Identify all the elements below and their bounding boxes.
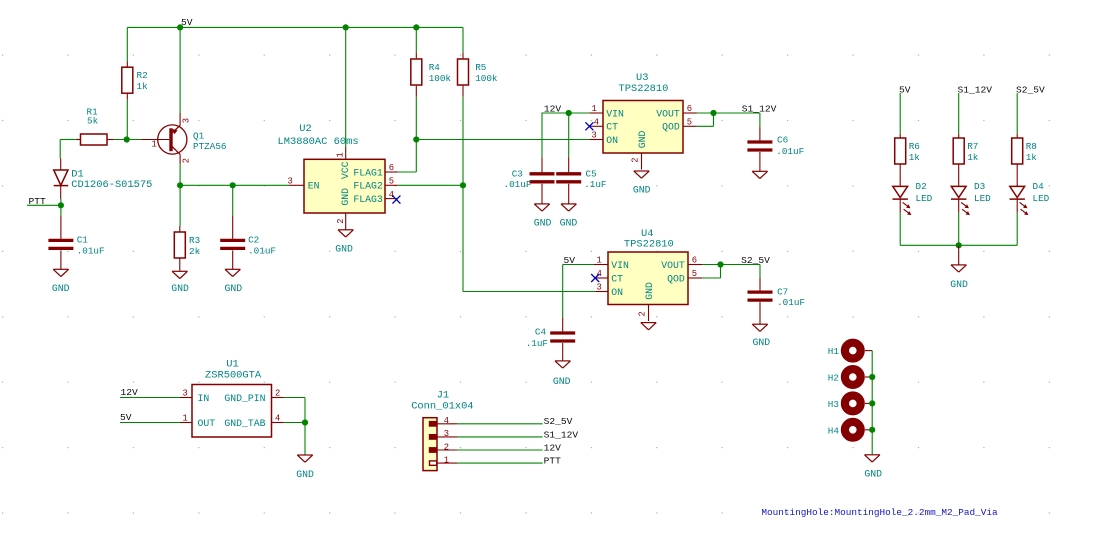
regulator U1 ZSR500GTA xyxy=(192,358,272,437)
U2 pin 2 GND xyxy=(336,188,351,230)
svg-text:GND: GND xyxy=(534,218,552,229)
svg-text:2: 2 xyxy=(637,311,647,316)
wire J1 pin 1 to PTT xyxy=(457,462,543,464)
svg-text:GND: GND xyxy=(633,184,651,195)
wire R1 to Q1 base xyxy=(114,139,142,141)
wire 12V down to C3 xyxy=(541,113,543,157)
junction collector/R3 node xyxy=(177,182,183,188)
U4 pin 1 VIN xyxy=(594,256,629,271)
svg-text:5V: 5V xyxy=(564,255,576,266)
svg-text:.1uF: .1uF xyxy=(584,179,606,190)
U4 pin 3 ON xyxy=(596,283,624,298)
svg-text:3: 3 xyxy=(597,283,602,293)
U2 pin 3 EN xyxy=(288,176,320,191)
ground below U2 xyxy=(335,230,353,255)
op-amp U3 TPS22810 xyxy=(603,72,683,153)
diode D1 xyxy=(54,159,153,200)
svg-text:R8: R8 xyxy=(1026,141,1037,152)
label S1_12V at LED column xyxy=(958,84,993,95)
svg-text:FLAG1: FLAG1 xyxy=(353,167,383,178)
U2 pin 5 FLAG2 xyxy=(353,177,398,192)
svg-text:2k: 2k xyxy=(189,246,201,257)
svg-text:.01uF: .01uF xyxy=(776,146,804,157)
svg-text:U1: U1 xyxy=(226,358,238,370)
svg-text:R2: R2 xyxy=(137,70,148,81)
wire PTT node to C1 xyxy=(60,205,62,216)
junction R4 / ON net / FLAG1 xyxy=(413,136,419,142)
svg-text:S2_5V: S2_5V xyxy=(544,416,573,427)
mounting hole H2 xyxy=(828,369,861,385)
resistor R5 xyxy=(458,53,498,97)
mounting hole H3 xyxy=(828,396,861,412)
svg-text:S1_12V: S1_12V xyxy=(958,84,993,95)
svg-text:5: 5 xyxy=(389,177,394,187)
svg-text:C1: C1 xyxy=(77,235,89,246)
wire ON net to U3 xyxy=(416,139,589,141)
H3 pin stub xyxy=(865,402,872,404)
svg-text:Conn_01x04: Conn_01x04 xyxy=(411,401,473,413)
wire J1 pin 2 to 12V xyxy=(457,449,543,451)
svg-text:U2: U2 xyxy=(299,123,311,135)
svg-text:D2: D2 xyxy=(916,181,927,192)
svg-text:MountingHole:MountingHole_2.2m: MountingHole:MountingHole_2.2mm_M2_Pad_V… xyxy=(761,507,998,518)
H4 pin stub xyxy=(865,429,872,431)
resistor R1 xyxy=(76,107,114,146)
mounting hole H4 xyxy=(828,422,861,438)
U1 pin 3 IN xyxy=(180,389,209,405)
svg-text:3: 3 xyxy=(182,118,192,123)
label S2_5V xyxy=(741,255,770,266)
wire U4 QOD up xyxy=(720,265,722,279)
label 5V at LED column xyxy=(899,84,911,95)
resistor R6 xyxy=(895,134,921,171)
svg-text:GND: GND xyxy=(864,469,882,480)
svg-text:2: 2 xyxy=(630,158,640,163)
svg-text:100k: 100k xyxy=(475,73,498,84)
svg-text:C5: C5 xyxy=(586,168,597,179)
wire D1 to PTT node xyxy=(60,199,62,205)
svg-text:ON: ON xyxy=(611,287,623,298)
wire FLAG1 drop xyxy=(415,140,417,173)
wire 5V to U2 VCC xyxy=(345,27,347,147)
H1 pin stub xyxy=(865,350,872,352)
wire FLAG2 node down xyxy=(462,185,464,291)
svg-text:5: 5 xyxy=(687,117,692,127)
U3 pin 4 CT xyxy=(589,118,618,133)
wire VOUT to S1_12V xyxy=(697,112,760,114)
svg-text:1: 1 xyxy=(183,414,188,424)
junction U1 ground tie xyxy=(302,419,308,425)
U2 pin 4 FLAG3 xyxy=(353,190,398,205)
wire GND_TAB right xyxy=(284,422,306,424)
label S1_12V at J1 xyxy=(544,429,579,440)
junction R5 / FLAG2 xyxy=(460,182,466,188)
wire J1 pin 3 to S1_12V xyxy=(457,436,543,438)
junction U4 QOD tie xyxy=(717,261,723,267)
svg-text:1: 1 xyxy=(592,104,597,114)
svg-text:GND: GND xyxy=(637,130,648,148)
junction H4 tap xyxy=(869,427,875,433)
capacitor C2 xyxy=(220,216,276,269)
ground below C5 xyxy=(560,204,578,229)
label 5V at U4 xyxy=(564,255,576,266)
svg-text:GND: GND xyxy=(296,469,314,480)
wire J1 pin 4 to S2_5V xyxy=(457,423,543,425)
wire D4 to ground bus xyxy=(1016,213,1018,246)
svg-text:1k: 1k xyxy=(137,81,149,92)
svg-text:OUT: OUT xyxy=(198,418,216,429)
U2 pin 6 FLAG1 xyxy=(353,163,398,178)
wire 5V down to R6 xyxy=(899,93,901,134)
svg-text:GND: GND xyxy=(560,218,578,229)
svg-text:C6: C6 xyxy=(777,134,788,145)
svg-text:LM3880AC 60ms: LM3880AC 60ms xyxy=(278,136,359,148)
svg-text:3: 3 xyxy=(444,429,449,439)
svg-text:Q1: Q1 xyxy=(193,130,205,141)
svg-text:6: 6 xyxy=(692,256,697,266)
svg-text:.01uF: .01uF xyxy=(248,245,276,256)
svg-text:J1: J1 xyxy=(437,389,449,401)
wire junction down to C5 xyxy=(568,113,570,157)
wire R1 left lead xyxy=(60,139,76,141)
svg-text:IN: IN xyxy=(198,393,210,404)
LED D2 xyxy=(893,171,933,215)
wire LED ground bus xyxy=(900,244,1017,246)
wire D2 to ground bus xyxy=(899,213,901,246)
svg-text:2: 2 xyxy=(182,158,192,163)
wire 5V rail to R2 xyxy=(126,27,128,61)
svg-text:100k: 100k xyxy=(429,73,452,84)
svg-text:12V: 12V xyxy=(544,103,562,114)
svg-text:TPS22810: TPS22810 xyxy=(624,238,674,250)
svg-text:GND: GND xyxy=(950,279,968,290)
junction H2 tap xyxy=(869,374,875,380)
wire R5 to FLAG2 node xyxy=(462,97,464,186)
resistor R7 xyxy=(953,134,979,171)
capacitor C7 xyxy=(748,278,806,324)
svg-text:R7: R7 xyxy=(967,141,978,152)
svg-text:FLAG2: FLAG2 xyxy=(353,181,383,192)
J1 pin 4 xyxy=(430,416,458,426)
svg-text:5k: 5k xyxy=(87,116,99,127)
capacitor C3 xyxy=(504,157,555,204)
svg-text:6: 6 xyxy=(389,163,394,173)
J1 pin 2 xyxy=(430,442,458,452)
svg-text:S1_12V: S1_12V xyxy=(742,103,777,114)
ground below holes xyxy=(864,455,882,480)
svg-text:C7: C7 xyxy=(777,286,788,297)
ground below C2 xyxy=(225,269,243,294)
svg-text:D3: D3 xyxy=(974,181,985,192)
svg-text:PTT: PTT xyxy=(544,456,562,467)
svg-text:LED: LED xyxy=(916,193,933,204)
svg-text:2: 2 xyxy=(336,219,346,224)
svg-text:GND_TAB: GND_TAB xyxy=(224,418,265,429)
wire corner down to D1 xyxy=(59,140,61,159)
svg-text:GND: GND xyxy=(171,283,189,294)
svg-text:1: 1 xyxy=(597,256,602,266)
svg-text:R4: R4 xyxy=(429,62,441,73)
ground below U1 xyxy=(296,455,314,480)
label PTT xyxy=(29,196,47,207)
label 5V at U1 xyxy=(120,412,132,423)
svg-text:3: 3 xyxy=(592,131,597,141)
junction base node xyxy=(124,136,130,142)
U1 pin 2 GND_PIN xyxy=(224,389,283,405)
capacitor C1 xyxy=(48,216,104,269)
svg-text:3: 3 xyxy=(288,176,293,186)
svg-text:S1_12V: S1_12V xyxy=(544,429,579,440)
svg-text:GND: GND xyxy=(225,283,243,294)
wire QOD up xyxy=(713,113,715,126)
wire EN net xyxy=(180,184,289,186)
junction 5V rail / R4 xyxy=(413,24,419,30)
junction 5V rail / Q1 emitter xyxy=(177,24,183,30)
svg-text:VIN: VIN xyxy=(611,260,629,271)
U1 pin 1 OUT xyxy=(180,414,215,430)
wire R2 to base junction xyxy=(126,99,128,140)
wire FLAG1 horizontal xyxy=(398,171,416,173)
ground below C4 xyxy=(553,361,571,387)
capacitor C4 xyxy=(526,318,576,361)
svg-text:5V: 5V xyxy=(120,412,132,423)
connector J1 Conn_01x04 xyxy=(411,389,473,470)
wire GND_PIN right xyxy=(284,397,306,399)
resistor R3 xyxy=(174,226,200,271)
wire node to C2 xyxy=(232,185,234,216)
junction LED bus center xyxy=(956,242,962,248)
label 5V xyxy=(181,17,193,28)
U4 pin 4 CT xyxy=(594,269,623,284)
junction C5 tap on 12V xyxy=(566,110,572,116)
svg-text:.01uF: .01uF xyxy=(77,245,105,256)
wire 5V into U1 xyxy=(120,422,180,424)
U3 pin 1 VIN xyxy=(589,104,624,119)
ground below LED bus xyxy=(950,265,968,290)
svg-text:S2_5V: S2_5V xyxy=(1016,84,1045,95)
svg-text:1: 1 xyxy=(335,152,345,157)
svg-text:6: 6 xyxy=(687,104,692,114)
svg-text:R5: R5 xyxy=(475,62,486,73)
ground below C3 xyxy=(534,204,552,229)
svg-text:GND_PIN: GND_PIN xyxy=(224,393,265,404)
svg-text:GND: GND xyxy=(753,337,771,348)
wire VOUT to S2_5V xyxy=(702,264,760,266)
svg-text:QOD: QOD xyxy=(667,273,685,284)
resistor R2 xyxy=(122,62,148,100)
junction QOD tie xyxy=(710,110,716,116)
svg-text:CT: CT xyxy=(611,273,623,284)
svg-text:S2_5V: S2_5V xyxy=(741,255,770,266)
wire S1_12V down to R7 xyxy=(958,93,960,134)
capacitor C6 xyxy=(747,127,804,171)
wire S2_5V down to R8 xyxy=(1016,93,1018,134)
svg-text:ZSR500GTA: ZSR500GTA xyxy=(205,370,262,382)
svg-text:D4: D4 xyxy=(1033,181,1045,192)
svg-text:1: 1 xyxy=(444,455,449,465)
resistor R4 xyxy=(411,53,452,97)
svg-text:LED: LED xyxy=(974,193,991,204)
H2 pin stub xyxy=(865,376,872,378)
J1 pin 1 xyxy=(430,455,458,465)
wire S1_12V down to C6 xyxy=(759,113,761,127)
svg-text:GND: GND xyxy=(335,243,353,254)
svg-text:4: 4 xyxy=(275,414,280,424)
ground below C6 xyxy=(752,171,767,178)
wire FLAG2 horizontal xyxy=(398,184,463,186)
svg-text:VCC: VCC xyxy=(340,161,351,179)
svg-text:TPS22810: TPS22810 xyxy=(619,83,669,95)
svg-text:EN: EN xyxy=(308,181,320,192)
svg-text:LED: LED xyxy=(1033,193,1050,204)
label S2_5V at LED column xyxy=(1016,84,1045,95)
ground below C1 xyxy=(52,269,70,294)
ground below C7 xyxy=(752,324,770,348)
svg-text:C4: C4 xyxy=(535,327,547,338)
svg-text:.01uF: .01uF xyxy=(504,179,532,190)
transistor Q1 xyxy=(141,113,226,164)
LED D3 xyxy=(951,171,991,215)
U3 pin 6 VOUT xyxy=(656,104,697,119)
ground below U3 xyxy=(633,171,651,195)
wire node to R3 xyxy=(179,185,181,226)
svg-text:2: 2 xyxy=(444,442,449,452)
wire R4 to ON net xyxy=(415,97,417,140)
svg-text:VOUT: VOUT xyxy=(656,108,680,119)
capacitor C5 xyxy=(556,157,606,204)
U3 pin 3 ON xyxy=(589,131,618,146)
svg-text:5V: 5V xyxy=(899,84,911,95)
junction PTT node xyxy=(58,202,64,208)
svg-text:ON: ON xyxy=(606,135,618,146)
LED bus ground lead xyxy=(958,245,960,265)
svg-text:12V: 12V xyxy=(121,387,139,398)
junction C2 tap xyxy=(230,182,236,188)
svg-text:5: 5 xyxy=(692,269,697,279)
svg-text:4: 4 xyxy=(389,190,394,200)
wire 5V down to C4 xyxy=(562,265,564,319)
label 12V xyxy=(544,103,562,114)
svg-text:GND: GND xyxy=(644,282,655,300)
wire Q1 emitter to 5V xyxy=(179,27,181,113)
svg-text:H2: H2 xyxy=(828,373,839,384)
svg-text:VIN: VIN xyxy=(606,108,624,119)
svg-text:C2: C2 xyxy=(248,235,259,246)
svg-text:CT: CT xyxy=(606,122,618,133)
wire H1 corner down xyxy=(871,351,873,455)
op-amp U4 TPS22810 xyxy=(608,228,688,304)
ground below U4 xyxy=(641,323,656,330)
svg-text:.1uF: .1uF xyxy=(526,338,548,349)
footprint text MountingHole xyxy=(761,507,998,518)
mounting hole H1 xyxy=(828,343,861,359)
label PTT at J1 xyxy=(544,456,562,467)
svg-text:H3: H3 xyxy=(828,399,839,410)
svg-text:H1: H1 xyxy=(828,346,840,357)
wire 5V to U4 VIN xyxy=(563,264,594,266)
svg-text:12V: 12V xyxy=(544,442,562,453)
label S2_5V at J1 xyxy=(544,416,573,427)
wire Q1 collector down xyxy=(179,164,181,186)
label S1_12V xyxy=(742,103,777,114)
U2 pin 1 VCC xyxy=(335,147,351,179)
svg-text:1k: 1k xyxy=(967,152,979,163)
U4 pin 5 QOD xyxy=(667,269,702,284)
svg-text:GND: GND xyxy=(553,376,571,387)
svg-text:CD1206-S01575: CD1206-S01575 xyxy=(71,179,152,191)
svg-text:QOD: QOD xyxy=(662,122,680,133)
wire PTT xyxy=(27,204,61,206)
LED D4 xyxy=(1010,171,1050,215)
wire U1 ground down xyxy=(304,423,306,456)
svg-text:1: 1 xyxy=(152,140,157,150)
wire 12V into U1 xyxy=(120,397,180,399)
svg-text:4: 4 xyxy=(444,416,449,426)
no-connect U3 pin 4 xyxy=(585,122,593,130)
svg-text:4: 4 xyxy=(594,118,599,128)
no-connect U4 pin 4 xyxy=(591,274,599,282)
wire D3 to ground bus xyxy=(958,213,960,246)
svg-text:R3: R3 xyxy=(189,235,200,246)
svg-text:H4: H4 xyxy=(828,425,840,436)
svg-text:GND: GND xyxy=(52,283,70,294)
svg-text:C3: C3 xyxy=(512,168,523,179)
svg-text:3: 3 xyxy=(183,389,188,399)
U1 pin 4 GND_TAB xyxy=(224,414,283,430)
wire 5V rail xyxy=(127,26,463,28)
label 12V at J1 xyxy=(544,442,562,453)
ground below R3 xyxy=(171,271,189,294)
wire 5V to R4 xyxy=(415,27,417,53)
U4 pin 6 VOUT xyxy=(661,256,702,271)
U3 pin 2 GND xyxy=(630,130,648,169)
svg-text:GND: GND xyxy=(340,188,351,206)
svg-text:1k: 1k xyxy=(1026,152,1038,163)
svg-text:PTZA56: PTZA56 xyxy=(193,141,226,152)
U3 pin 5 QOD xyxy=(662,117,697,132)
svg-text:1k: 1k xyxy=(909,152,921,163)
wire 5V rail corner to R5 xyxy=(462,27,464,53)
svg-text:2: 2 xyxy=(275,389,280,399)
op-amp U2 LM3880 xyxy=(278,123,386,213)
no-connect U2 pin 4 xyxy=(392,196,400,204)
junction 5V rail / U2 VCC xyxy=(343,24,349,30)
resistor R8 xyxy=(1012,134,1038,171)
wire QOD horizontal xyxy=(697,125,714,127)
junction H3 tap xyxy=(869,400,875,406)
U4 pin 2 GND xyxy=(637,282,655,321)
J1 pin 3 xyxy=(430,429,458,439)
svg-text:.01uF: .01uF xyxy=(777,297,805,308)
svg-text:R6: R6 xyxy=(909,141,920,152)
wire GND_PIN corner down xyxy=(304,398,306,423)
svg-text:PTT: PTT xyxy=(29,196,47,207)
label 12V at U1 xyxy=(121,387,139,398)
svg-text:FLAG3: FLAG3 xyxy=(353,194,383,205)
wire U4 QOD horizontal xyxy=(702,277,721,279)
wire S2_5V down to C7 xyxy=(759,265,761,279)
wire to U4 ON xyxy=(463,291,596,293)
wire 12V to VIN xyxy=(542,112,590,114)
svg-text:VOUT: VOUT xyxy=(661,260,685,271)
